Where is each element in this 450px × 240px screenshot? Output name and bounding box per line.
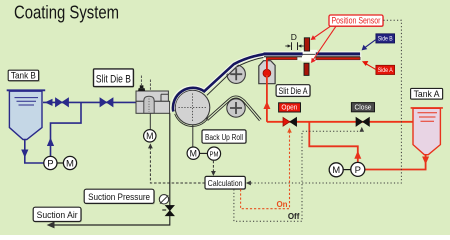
arrow up pump riser: [354, 151, 361, 159]
svg-text:Side A: Side A: [378, 67, 394, 74]
pump M (tank A): [329, 163, 351, 177]
center lines above die: [140, 76, 142, 86]
web left segment: white halo: [264, 51, 305, 60]
web right segment navy: [316, 52, 360, 55]
svg-text:P: P: [355, 165, 361, 176]
arrow: position sensor to upper bar: [314, 26, 331, 38]
tank B: [7, 90, 46, 139]
arrow: side A to web: [366, 64, 376, 70]
suction pressure gauge: [159, 195, 168, 204]
position sensor lower bar: [304, 63, 309, 75]
white fringe outside web band: [171, 86, 205, 113]
white rect in sensor gap: [302, 50, 318, 62]
svg-text:Tank B: Tank B: [11, 71, 36, 81]
svg-text:Off: Off: [288, 212, 300, 221]
wire: tank A outlet to pump: [365, 155, 426, 170]
svg-text:Slit Die B: Slit Die B: [96, 74, 131, 86]
white gap arc between roll and web band: [174, 89, 203, 110]
dashed: calculation to die B motor M: [150, 146, 205, 183]
label Suction Air: [33, 207, 82, 222]
web left segment film line: [264, 56, 302, 58]
svg-text:M: M: [190, 148, 197, 158]
slit die B assembly: [136, 76, 170, 114]
svg-text:Open: Open: [281, 105, 297, 112]
label Calculation: [205, 176, 246, 189]
motor M (tank B pump): [57, 156, 77, 169]
label Back Up Roll: [202, 130, 247, 144]
arrow: side B to web: [365, 40, 376, 48]
position sensor upper bar: [304, 38, 309, 51]
back up roll: [175, 90, 210, 125]
arrow up on pump riser: [47, 138, 54, 147]
svg-text:M: M: [332, 165, 340, 176]
button Close: [351, 103, 374, 112]
label Slit Die B: [94, 69, 135, 88]
svg-text:D: D: [291, 32, 297, 42]
web left segment navy (Side B coated): [264, 52, 303, 55]
svg-text:Close: Close: [355, 104, 372, 111]
web right segment: white halo: [315, 51, 361, 60]
wire: red main pipe: [267, 121, 413, 123]
dimension D: [285, 32, 303, 50]
wire: red coat feed inside die A: [266, 59, 268, 74]
sensor PM: [200, 147, 221, 160]
arrow into tank B (flow left): [45, 99, 53, 106]
valve V3 (blue, near tank B): [56, 98, 69, 107]
film thin line through gap: [298, 53, 318, 55]
wire: tank B outlet to pump: [25, 140, 44, 164]
slit die A body: [259, 61, 275, 84]
valve V1 Open (red/black): [283, 117, 297, 126]
svg-text:On: On: [276, 200, 287, 209]
dotted Off path: calculation to valve V2: [234, 129, 362, 221]
svg-text:Suction Air: Suction Air: [37, 210, 78, 220]
label Suction Pressure: [84, 189, 155, 204]
svg-text:Suction Pressure: Suction Pressure: [88, 192, 150, 202]
wire: blue pipe Tank B to Slit Die B: [43, 101, 136, 103]
pump P (tank A): [351, 162, 365, 176]
svg-text:Slit Die A: Slit Die A: [279, 86, 308, 96]
arrow: position sensor to lower bar: [313, 26, 336, 60]
svg-text:Coating System: Coating System: [14, 3, 119, 23]
white halo along diagonal web: [204, 55, 264, 92]
wire: suction line from die B down and left: [49, 113, 170, 225]
label Side B: [376, 34, 395, 43]
label Tank A: [411, 88, 444, 100]
film web incoming around roller 2: [206, 96, 261, 119]
label Slit Die A: [276, 85, 311, 98]
suction valve (vertical): [162, 205, 174, 215]
red dashed On path: calculation to valve V1: [241, 131, 290, 209]
film wrap line under roll: [175, 114, 208, 127]
label Tank B: [8, 70, 40, 82]
wire: roll to motor: [192, 125, 194, 147]
wire: red feed riser to die A: [266, 75, 268, 122]
dashed: PM to calculation: [212, 161, 214, 174]
label Side A: [376, 65, 395, 74]
svg-text:PM: PM: [210, 149, 219, 158]
svg-text:Back Up Roll: Back Up Roll: [205, 132, 243, 142]
button Open: [279, 103, 301, 112]
motor M (back up roll): [187, 147, 199, 159]
svg-text:P: P: [47, 159, 53, 170]
valve V2 Close (black): [356, 117, 369, 126]
svg-text:Calculation: Calculation: [208, 178, 243, 188]
svg-text:Position Sensor: Position Sensor: [332, 16, 381, 26]
valve V4 (blue, before slit die B): [100, 98, 113, 107]
arrow left on suction air line: [47, 222, 55, 229]
die bulb: [144, 96, 154, 113]
label Position Sensor: [329, 15, 384, 27]
upper block: [136, 91, 168, 101]
pump P (tank B): [44, 156, 57, 169]
web right segment red: [316, 57, 360, 60]
bolt on die top: [138, 88, 145, 91]
arrow up on die A feed: [263, 101, 270, 109]
arrow down tank A outlet: [422, 157, 429, 165]
dotted: position sensor loop to calculation: [249, 20, 402, 183]
wire: blue riser pump P to pipe: [51, 102, 82, 156]
roller 2: [227, 99, 245, 117]
arrow down on tank B outlet: [21, 150, 28, 158]
navy web band: [173, 54, 264, 111]
svg-text:M: M: [146, 131, 153, 141]
wire: red pump riser: [309, 122, 358, 163]
film thin line under navy: [207, 57, 264, 95]
web left segment red (Side A coat from die): [266, 57, 297, 60]
web right segment film line: [316, 56, 360, 58]
svg-text:Side B: Side B: [378, 36, 393, 43]
motor M (slit die B positioner): [144, 130, 156, 142]
wire: die B to motor M: [149, 113, 151, 129]
svg-text:Tank A: Tank A: [414, 89, 440, 99]
svg-text:M: M: [66, 159, 74, 170]
lower block: [136, 101, 170, 113]
tank A: [411, 108, 443, 155]
roller 1: [227, 65, 245, 83]
